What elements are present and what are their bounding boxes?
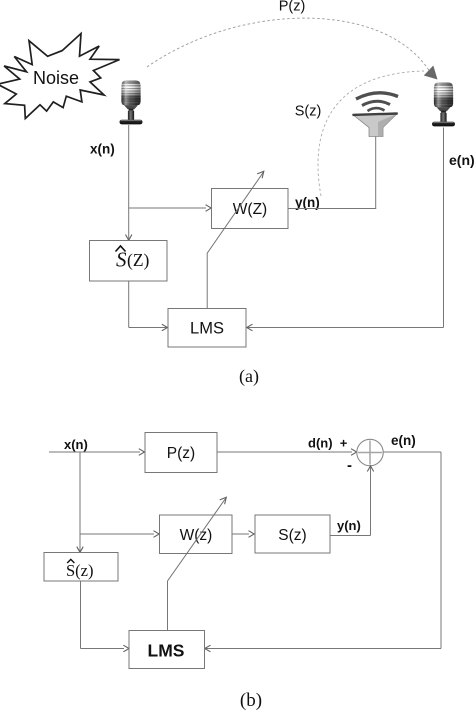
arrowhead into summer bottom xyxy=(367,466,373,472)
svg-text:P(z): P(z) xyxy=(279,0,306,15)
wire: input to P(z) xyxy=(49,451,140,453)
arrowhead into W(Z) left xyxy=(206,205,212,212)
svg-text:P(z): P(z) xyxy=(167,445,195,462)
svg-text:y(n): y(n) xyxy=(295,195,320,210)
svg-text:x(n): x(n) xyxy=(90,142,115,157)
svg-text:-: - xyxy=(347,457,352,474)
arrowhead into LMS left (b) xyxy=(123,645,129,652)
svg-text:S(z): S(z) xyxy=(278,527,306,544)
svg-text:d(n) +: d(n) + xyxy=(308,436,348,451)
wire: W(Z) output to speaker xyxy=(288,208,376,210)
arrowhead into summer left xyxy=(351,449,357,456)
S(z) dashed curve xyxy=(318,71,424,196)
svg-text:e(n): e(n) xyxy=(449,152,474,168)
wire: S^(Z) down then to LMS xyxy=(128,281,130,328)
svg-text:e(n): e(n) xyxy=(391,433,416,448)
wire: diagonal stem to LMS top (b) xyxy=(167,581,169,631)
speaker horn xyxy=(353,114,397,137)
noise starburst xyxy=(0,34,120,119)
svg-text:x(n): x(n) xyxy=(64,437,88,452)
arrowhead into LMS left xyxy=(162,324,168,331)
wire: S^(z) down then right to LMS xyxy=(80,581,82,649)
wire: S(z) up to summer xyxy=(330,535,371,537)
arrowhead into S^(z) top (b) xyxy=(77,547,83,553)
wire: x(n) vertical from left mic down to S^(Z) box xyxy=(128,125,130,241)
wire: speaker stem down xyxy=(375,137,377,209)
wire: x(n) branch down xyxy=(79,452,81,553)
P(z) dashed arc xyxy=(147,18,430,72)
arrowhead into LMS right xyxy=(247,324,253,331)
wire: W(z) to S(z) xyxy=(232,533,249,535)
LMS box (b) xyxy=(129,631,205,669)
wire: branch to W(Z) xyxy=(129,207,206,209)
wire: branch to W(z) xyxy=(80,533,154,535)
wire: diagonal stem down to LMS top xyxy=(206,254,208,309)
S^(Z) box xyxy=(90,241,168,282)
speaker sound waves xyxy=(356,93,398,99)
summing junction xyxy=(357,439,383,465)
S^(z) box (b) xyxy=(44,553,118,582)
arrowhead into W(z) left xyxy=(154,531,160,538)
P(z) box xyxy=(145,433,217,473)
arrowhead into LMS right (b) xyxy=(205,645,211,652)
wire: error mic vertical down xyxy=(443,128,445,328)
svg-text:S(z): S(z) xyxy=(295,104,322,120)
svg-text:(a): (a) xyxy=(239,366,259,387)
svg-text:(b): (b) xyxy=(240,690,262,711)
wire: P(z) to summer xyxy=(217,451,352,453)
arrowhead into S^(Z) top xyxy=(126,235,132,241)
adaptive diagonal arrow through W(Z) xyxy=(207,172,264,254)
wire: summer to right then down to LMS xyxy=(383,451,441,453)
adaptive diagonal arrow through W(z) (b) xyxy=(168,499,226,582)
arrowhead into P(z) xyxy=(139,449,145,456)
S(z) box (b) xyxy=(255,515,330,553)
microphone (reference mic, left) xyxy=(120,80,143,124)
microphone (error mic, right) xyxy=(432,82,455,126)
arrowhead (filled) at error mic xyxy=(424,66,438,80)
wire: to LMS right xyxy=(247,327,444,329)
svg-text:y(n): y(n) xyxy=(337,518,361,533)
arrowhead into S(z) left xyxy=(249,531,255,538)
LMS box (a) xyxy=(168,309,246,348)
svg-text:Noise: Noise xyxy=(33,68,79,88)
svg-text:(Z): (Z) xyxy=(127,250,150,270)
svg-text:LMS: LMS xyxy=(190,320,224,338)
svg-text:S(z): S(z) xyxy=(66,561,94,580)
W(Z) box xyxy=(212,189,289,229)
svg-text:LMS: LMS xyxy=(148,641,185,661)
W(z) box (b) xyxy=(160,515,233,554)
svg-text:W(z): W(z) xyxy=(180,527,213,544)
